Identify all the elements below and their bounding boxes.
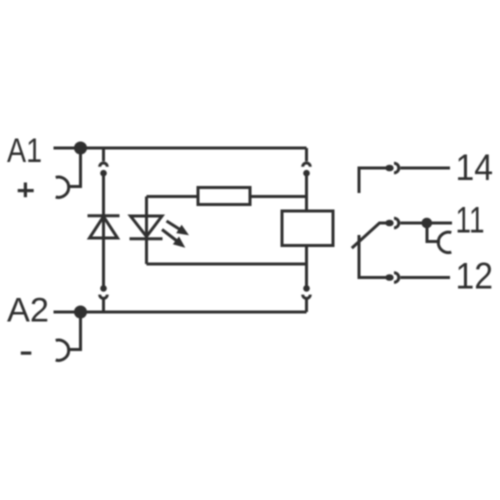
svg-text:A2: A2 — [7, 292, 49, 330]
svg-text:A1: A1 — [7, 132, 42, 170]
svg-text:14: 14 — [456, 147, 494, 188]
svg-text:12: 12 — [456, 256, 494, 297]
svg-text:11: 11 — [456, 200, 485, 241]
